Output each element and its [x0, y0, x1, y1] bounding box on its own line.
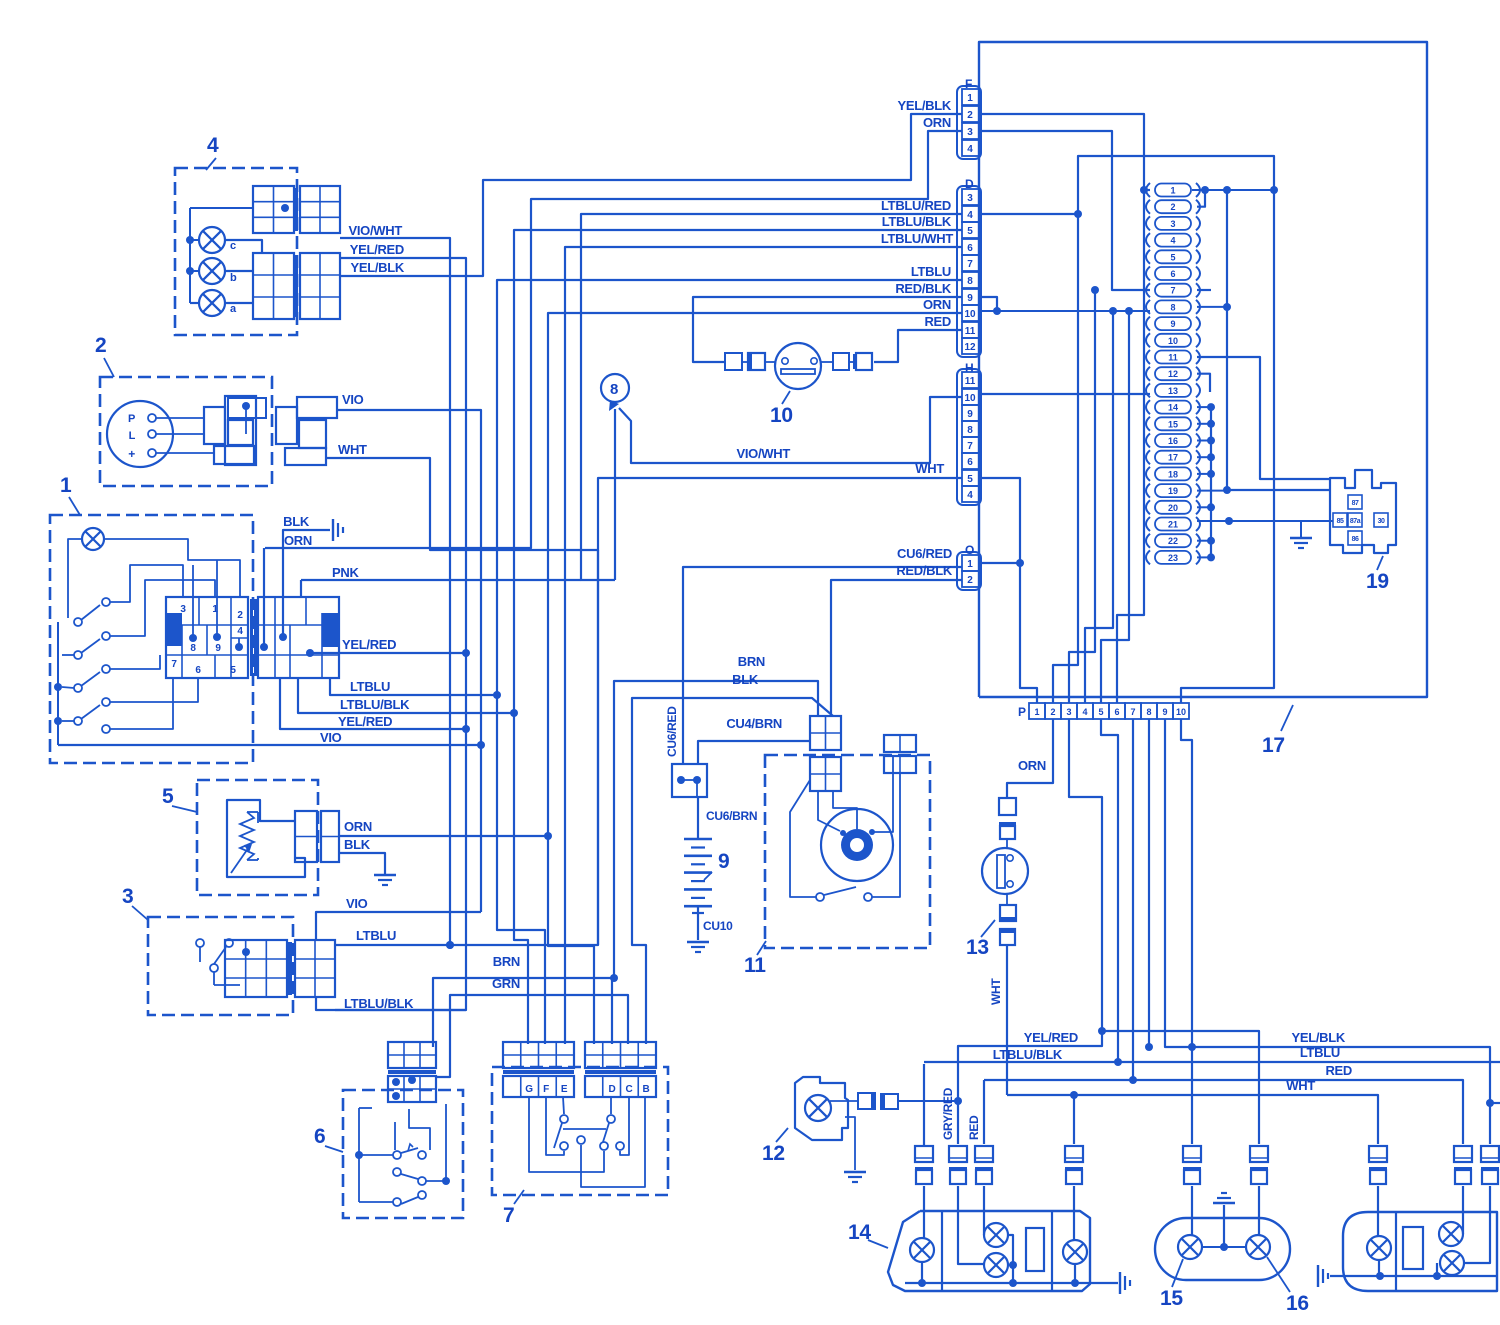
- svg-text:10: 10: [964, 309, 976, 320]
- svg-text:9: 9: [967, 293, 973, 304]
- svg-text:4: 4: [967, 210, 973, 221]
- blower resistor 5 box: [197, 780, 318, 895]
- svg-text:12: 12: [964, 342, 976, 353]
- wire PNK link to turn ref 8: [301, 579, 581, 581]
- svg-text:L: L: [129, 430, 136, 442]
- right cluster ground rail: [1330, 1275, 1497, 1277]
- lamp c: [199, 227, 225, 253]
- pin D7: [962, 255, 979, 271]
- cluster 14 lamp b: [984, 1223, 1008, 1247]
- svg-text:2: 2: [1050, 707, 1055, 717]
- svg-text:ORN: ORN: [344, 819, 372, 834]
- svg-text:1: 1: [1170, 186, 1175, 196]
- svg-text:YEL/RED: YEL/RED: [342, 637, 396, 652]
- wire D9 bracket to ORN: [981, 297, 997, 311]
- svg-text:7: 7: [967, 441, 973, 452]
- svg-text:13: 13: [1168, 386, 1178, 396]
- pin D4: [962, 206, 979, 222]
- svg-text:YEL/BLK: YEL/BLK: [1291, 1030, 1345, 1045]
- svg-text:2: 2: [967, 110, 973, 121]
- svg-text:2: 2: [237, 610, 243, 621]
- fuse 12 right stub: [1197, 374, 1210, 392]
- svg-text:8: 8: [610, 381, 618, 398]
- fuse 9: [1146, 317, 1150, 331]
- svg-text:B: B: [643, 1084, 650, 1095]
- svg-text:4: 4: [207, 134, 219, 157]
- lamp a wire: [226, 302, 253, 304]
- lamp 12 connectors: [858, 1093, 875, 1109]
- svg-text:10: 10: [964, 393, 976, 404]
- pin D11: [962, 322, 979, 338]
- fuse 11: [1146, 350, 1150, 364]
- switch 6 contacts: [393, 1151, 401, 1159]
- svg-text:9: 9: [1162, 707, 1167, 717]
- svg-text:2: 2: [95, 334, 106, 357]
- feed LTBLU/BLK col: [923, 1064, 925, 1146]
- pin D8: [962, 272, 979, 288]
- svg-text:BRN: BRN: [738, 654, 765, 669]
- switch 6 left bus: [358, 1108, 360, 1202]
- svg-text:ORN: ORN: [284, 533, 312, 548]
- instrument connector: [156, 417, 204, 419]
- svg-text:2: 2: [967, 575, 973, 586]
- svg-text:CU6/RED: CU6/RED: [665, 706, 679, 757]
- wire H10 to fuse 13: [981, 393, 1150, 395]
- fuse 2 right wire: [1197, 191, 1205, 207]
- pin D12: [962, 338, 979, 354]
- svg-text:VIO/WHT: VIO/WHT: [736, 446, 790, 461]
- pin O2: [962, 571, 979, 587]
- connector strip H: [957, 369, 981, 505]
- lamp wires: [68, 539, 82, 618]
- cigar lighter 10: [775, 343, 821, 389]
- cluster 15 feeds: [1191, 1186, 1193, 1235]
- pin D10: [962, 305, 979, 321]
- svg-text:WHT: WHT: [989, 978, 1003, 1005]
- connector 7 GFE: [503, 1042, 574, 1068]
- switch 7 box: [492, 1067, 668, 1195]
- svg-text:YEL/RED: YEL/RED: [338, 714, 392, 729]
- switch 6 feed wires: [394, 1122, 396, 1150]
- fuse 14-18,20,22,23 right stubs to common: [1197, 406, 1211, 408]
- svg-text:6: 6: [1170, 269, 1175, 279]
- svg-text:5: 5: [1170, 252, 1175, 262]
- wire 12 to GRY/RED: [898, 1100, 958, 1102]
- svg-text:RED/BLK: RED/BLK: [895, 281, 952, 296]
- pin P2: [1045, 703, 1061, 719]
- fuse 8 right stub: [1197, 306, 1227, 308]
- pin P4: [1077, 703, 1093, 719]
- cluster 14 wiring: [923, 1186, 925, 1238]
- pin F1: [962, 89, 979, 105]
- switch left bus: [57, 622, 59, 745]
- svg-text:15: 15: [1168, 419, 1178, 429]
- connector strip D: [957, 186, 981, 357]
- inline connector pair x1378: [1369, 1146, 1387, 1162]
- svg-text:LTBLU/WHT: LTBLU/WHT: [881, 231, 954, 246]
- lamp cluster 4 box: [175, 168, 297, 335]
- svg-text:22: 22: [1168, 536, 1178, 546]
- pin P5: [1093, 703, 1109, 719]
- svg-text:14: 14: [1168, 403, 1178, 413]
- fuse 10: [1146, 333, 1150, 347]
- svg-text:WHT: WHT: [915, 461, 944, 476]
- pin P8: [1141, 703, 1157, 719]
- svg-text:D: D: [609, 1084, 616, 1095]
- svg-text:8: 8: [967, 276, 973, 287]
- svg-text:PNK: PNK: [332, 565, 359, 580]
- fuse 18: [1146, 467, 1150, 481]
- instrument unit 2 box: [100, 377, 272, 486]
- block B of switch 1: [258, 597, 339, 678]
- fuse 12: [1146, 367, 1150, 381]
- svg-text:GRN: GRN: [492, 976, 520, 991]
- svg-text:YEL/RED: YEL/RED: [350, 242, 404, 257]
- pin H11: [962, 372, 979, 388]
- svg-text:LTBLU/BLK: LTBLU/BLK: [882, 214, 952, 229]
- svg-text:13: 13: [966, 936, 989, 959]
- svg-text:b: b: [230, 272, 237, 284]
- svg-text:7: 7: [1130, 707, 1135, 717]
- fuse 2: [1146, 200, 1150, 214]
- motor interior wires: [818, 791, 840, 831]
- cluster 14 ground rail: [905, 1282, 1118, 1284]
- svg-text:6: 6: [967, 457, 973, 468]
- fuse 14: [1146, 400, 1150, 414]
- svg-text:VIO: VIO: [346, 896, 368, 911]
- motor switch: [816, 893, 824, 901]
- lamp b: [199, 258, 225, 284]
- connector strip F: [957, 86, 981, 159]
- pin P3: [1061, 703, 1077, 719]
- connector 4 lower pair: [253, 253, 294, 319]
- inline connector pair x1259: [1250, 1146, 1268, 1162]
- lighter connectors: [725, 353, 742, 370]
- washer pump 13: [982, 848, 1028, 894]
- svg-text:3: 3: [967, 127, 973, 138]
- svg-text:6: 6: [967, 243, 973, 254]
- relay ground: [1300, 521, 1302, 537]
- svg-text:5: 5: [967, 474, 973, 485]
- pin F4: [962, 140, 979, 156]
- cluster 14 lamp d: [1063, 1240, 1087, 1264]
- svg-text:3: 3: [122, 885, 133, 908]
- svg-text:LTBLU: LTBLU: [356, 928, 396, 943]
- svg-text:11: 11: [965, 376, 976, 387]
- svg-text:5: 5: [162, 785, 174, 808]
- svg-text:12: 12: [1168, 369, 1178, 379]
- wire H5 into box down to P1: [981, 478, 1037, 703]
- wire D4 into box to fuse column: [981, 156, 1274, 703]
- cluster 14 lamp a: [910, 1238, 934, 1262]
- svg-text:E: E: [561, 1084, 568, 1095]
- pin P10: [1173, 703, 1189, 719]
- svg-text:11: 11: [744, 954, 766, 977]
- switch 3 box: [148, 917, 293, 1015]
- inline connector pair x924: [915, 1146, 933, 1162]
- right cluster wiring: [1377, 1186, 1379, 1236]
- inline connector pair x1192: [1183, 1146, 1201, 1162]
- svg-text:7: 7: [967, 259, 973, 270]
- switch 3 contacts: [196, 939, 204, 947]
- svg-text:BRN: BRN: [493, 954, 520, 969]
- svg-text:11: 11: [965, 326, 976, 337]
- svg-text:1: 1: [60, 474, 72, 497]
- svg-text:3: 3: [1170, 219, 1175, 229]
- wire P10 down to cluster 15: [1181, 719, 1192, 1144]
- svg-text:F: F: [543, 1084, 549, 1095]
- svg-text:3: 3: [180, 604, 186, 615]
- pin P1: [1029, 703, 1045, 719]
- svg-text:2: 2: [1170, 202, 1175, 212]
- svg-text:BLK: BLK: [283, 514, 310, 529]
- svg-text:7: 7: [503, 1204, 514, 1227]
- wire WHT lower branch to connector 7: [597, 550, 599, 945]
- svg-text:19: 19: [1168, 486, 1178, 496]
- fuse 19 right wire: [1197, 490, 1227, 492]
- pin F2: [962, 106, 979, 122]
- fuse 17: [1146, 450, 1150, 464]
- svg-text:YEL/BLK: YEL/BLK: [897, 98, 951, 113]
- lamp 15: [1178, 1235, 1202, 1259]
- switch 6 right bus: [445, 1104, 447, 1181]
- svg-text:WHT: WHT: [338, 442, 367, 457]
- svg-text:LTBLU/BLK: LTBLU/BLK: [993, 1047, 1063, 1062]
- lamp b wire: [226, 270, 253, 272]
- motor M: [821, 809, 893, 881]
- right cluster lamp a: [1367, 1236, 1391, 1260]
- svg-text:9: 9: [718, 850, 729, 873]
- svg-text:ORN: ORN: [923, 115, 951, 130]
- svg-text:17: 17: [1168, 453, 1178, 463]
- fuse 6: [1146, 267, 1150, 281]
- svg-text:5: 5: [1098, 707, 1103, 717]
- svg-text:16: 16: [1286, 1292, 1309, 1315]
- battery 9: [697, 796, 699, 839]
- svg-text:5: 5: [230, 665, 236, 676]
- svg-text:ORN: ORN: [1018, 758, 1046, 773]
- motor connector right: [884, 735, 916, 752]
- svg-text:30: 30: [1378, 518, 1385, 525]
- svg-text:BLK: BLK: [732, 672, 759, 687]
- vertical from ORN junction to P4: [1085, 311, 1113, 703]
- vertical to P5: [1125, 307, 1133, 315]
- fuse 21 right wire to relay: [1197, 520, 1333, 522]
- pin D6: [962, 239, 979, 255]
- svg-text:19: 19: [1366, 570, 1389, 593]
- vertical fuse1-fuse19 to relay: [1226, 190, 1228, 490]
- fuse 23: [1146, 550, 1150, 564]
- svg-text:LTBLU: LTBLU: [350, 679, 390, 694]
- svg-text:6: 6: [1114, 707, 1119, 717]
- svg-text:9: 9: [967, 409, 973, 420]
- inline connector pair x1074: [1065, 1146, 1083, 1162]
- pin H5: [962, 470, 979, 486]
- instrument mating connector: [276, 407, 297, 444]
- pin H9: [962, 405, 979, 421]
- pin D5: [962, 222, 979, 238]
- svg-text:1: 1: [1034, 707, 1039, 717]
- svg-text:RED: RED: [924, 314, 951, 329]
- pin D9: [962, 289, 979, 305]
- svg-text:15: 15: [1160, 1287, 1183, 1310]
- wire D4 branch down to P2: [1074, 210, 1082, 218]
- fuse 8: [1146, 300, 1150, 314]
- svg-text:20: 20: [1168, 503, 1178, 513]
- svg-text:3: 3: [1066, 707, 1071, 717]
- svg-text:5: 5: [967, 226, 973, 237]
- svg-text:VIO: VIO: [320, 730, 342, 745]
- connector 4 upper pair: [253, 186, 294, 233]
- wire O1 right stub: [981, 562, 1020, 564]
- svg-text:4: 4: [967, 144, 973, 155]
- pin D3: [962, 189, 979, 205]
- svg-text:LTBLU/BLK: LTBLU/BLK: [344, 996, 414, 1011]
- right cluster lamp b: [1439, 1222, 1463, 1246]
- svg-text:VIO: VIO: [342, 392, 364, 407]
- pin O1: [962, 555, 979, 571]
- pin P6: [1109, 703, 1125, 719]
- lamp in switch 1: [82, 528, 104, 550]
- svg-text:ORN: ORN: [923, 297, 951, 312]
- svg-text:9: 9: [1170, 319, 1175, 329]
- pin P9: [1157, 703, 1173, 719]
- inline connector pair x1490: [1481, 1146, 1499, 1162]
- svg-text:3: 3: [967, 193, 973, 204]
- svg-text:7: 7: [171, 659, 177, 670]
- switch unit 1 box: [50, 515, 253, 763]
- switch 7 interior wires: [529, 1097, 604, 1172]
- pump connectors upper: [999, 798, 1016, 815]
- svg-text:8: 8: [190, 643, 196, 654]
- fuse 5: [1146, 250, 1150, 264]
- fuse box unit 17 outline: [979, 42, 1427, 697]
- svg-text:17: 17: [1262, 734, 1285, 757]
- switch 7 contacts: [560, 1115, 568, 1123]
- svg-text:4: 4: [967, 490, 973, 501]
- svg-text:YEL/RED: YEL/RED: [1024, 1030, 1078, 1045]
- inline connector pair x958: [949, 1146, 967, 1162]
- svg-text:RED: RED: [1325, 1063, 1352, 1078]
- svg-text:11: 11: [1168, 353, 1178, 363]
- fuse 15: [1146, 417, 1150, 431]
- fuse 16: [1146, 434, 1150, 448]
- connector 5: [295, 811, 317, 862]
- wire F3 to fuse 7: [981, 131, 1150, 290]
- svg-text:4: 4: [1170, 236, 1175, 246]
- svg-text:1: 1: [967, 93, 973, 104]
- block mating interface: [250, 599, 253, 676]
- connector strip O: [957, 552, 981, 590]
- right tail lamp cluster: [1368, 1212, 1497, 1291]
- fuse 22: [1146, 534, 1150, 548]
- svg-text:23: 23: [1168, 553, 1178, 563]
- fuse 11 right wire to relay: [1197, 357, 1330, 479]
- resistor body: [227, 800, 305, 877]
- inline connector pair x984: [975, 1146, 993, 1162]
- pin H6: [962, 453, 979, 469]
- lamp 12 ground: [845, 1117, 855, 1170]
- lamp bus wires: [189, 208, 191, 303]
- connector 6 pair: [388, 1042, 436, 1068]
- connector 3: [225, 940, 287, 997]
- svg-text:8: 8: [1170, 302, 1175, 312]
- svg-text:CU6/BRN: CU6/BRN: [706, 809, 757, 823]
- wiper motor 11 box: [765, 755, 930, 948]
- fuse 1 right wire: [1192, 189, 1274, 191]
- cluster 14 lamp c: [984, 1253, 1008, 1277]
- fuse 7 right stub: [1197, 289, 1211, 291]
- svg-text:LTBLU/RED: LTBLU/RED: [881, 198, 951, 213]
- wire ORN D10 to fuse 8: [981, 310, 1150, 312]
- fuse 3: [1146, 216, 1150, 230]
- svg-text:10: 10: [770, 404, 793, 427]
- tail lamp cluster 14: [888, 1211, 1090, 1291]
- wire cross feed to cluster 16: [1102, 1031, 1259, 1144]
- fuse 20: [1146, 500, 1150, 514]
- turn flasher ref circle 8: [601, 374, 629, 402]
- svg-text:4: 4: [1082, 707, 1087, 717]
- svg-text:1: 1: [967, 559, 973, 570]
- svg-text:GRY/RED: GRY/RED: [941, 1087, 955, 1140]
- connector 7 DCB: [585, 1042, 656, 1068]
- svg-text:P: P: [128, 413, 135, 425]
- svg-text:8: 8: [967, 425, 973, 436]
- wire CU6/BRN: [696, 780, 698, 797]
- svg-text:YEL/BLK: YEL/BLK: [350, 260, 404, 275]
- lamp c wire: [226, 240, 262, 253]
- switch to block wires: [110, 565, 183, 602]
- fuse 19: [1146, 484, 1150, 498]
- svg-text:87: 87: [1352, 500, 1359, 507]
- svg-text:4: 4: [237, 626, 243, 637]
- pin H4: [962, 486, 979, 502]
- pump connectors lower: [1000, 905, 1016, 921]
- svg-text:6: 6: [314, 1125, 325, 1148]
- fuse 4: [1146, 233, 1150, 247]
- svg-text:G: G: [525, 1084, 533, 1095]
- svg-text:LTBLU: LTBLU: [911, 264, 951, 279]
- svg-text:87a: 87a: [1350, 518, 1361, 525]
- svg-text:VIO/WHT: VIO/WHT: [348, 223, 402, 238]
- pin H10: [962, 389, 979, 405]
- svg-text:CU10: CU10: [703, 919, 733, 933]
- motor connector lower: [810, 757, 841, 791]
- svg-text:RED/BLK: RED/BLK: [896, 563, 953, 578]
- svg-text:9: 9: [215, 643, 221, 654]
- svg-text:CU6/RED: CU6/RED: [897, 546, 952, 561]
- fuse 7: [1146, 283, 1150, 297]
- svg-text:85: 85: [1337, 518, 1344, 525]
- instrument circle: [107, 401, 173, 467]
- wire P8 stub to YEL/BLK rail: [1148, 719, 1150, 1047]
- svg-text:6: 6: [195, 665, 201, 676]
- junction box CU: [672, 764, 707, 797]
- svg-text:CU4/BRN: CU4/BRN: [726, 716, 782, 731]
- svg-text:10: 10: [1176, 707, 1186, 717]
- pin F3: [962, 123, 979, 139]
- svg-text:16: 16: [1168, 436, 1178, 446]
- svg-text:P: P: [1018, 705, 1026, 719]
- right cluster lamp c: [1440, 1251, 1464, 1275]
- svg-text:+: +: [128, 447, 135, 461]
- switch 6 box: [343, 1090, 463, 1218]
- svg-text:12: 12: [762, 1142, 785, 1165]
- wire F2 to fuse 1 and P6: [981, 114, 1144, 703]
- block A of switch 1: [166, 597, 248, 678]
- relay 19: [1330, 470, 1396, 553]
- lamp 16: [1246, 1235, 1270, 1259]
